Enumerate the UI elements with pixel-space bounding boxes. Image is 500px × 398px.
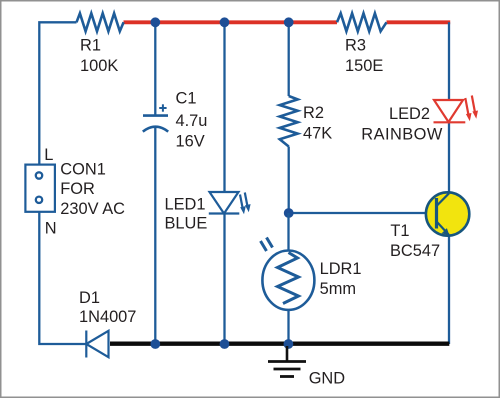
label CON1 FOR 230V AC xyxy=(60,160,125,218)
resistor R3 xyxy=(337,13,387,31)
svg-text:4.7u: 4.7u xyxy=(176,112,208,130)
label D1 1N4007 xyxy=(79,289,136,326)
wire C1 branch xyxy=(154,22,156,344)
node bottom C1 xyxy=(150,339,160,349)
label R2 47K xyxy=(303,104,332,143)
svg-text:100K: 100K xyxy=(80,57,118,75)
svg-text:T1: T1 xyxy=(390,222,409,240)
svg-text:R1: R1 xyxy=(80,37,101,55)
wire top red rail xyxy=(124,20,451,24)
wire base from junction to T1 xyxy=(289,212,436,214)
svg-text:BC547: BC547 xyxy=(390,242,440,260)
wire bottom black rail xyxy=(110,342,449,346)
label LDR1 5mm xyxy=(320,260,362,298)
svg-text:230V AC: 230V AC xyxy=(60,200,125,218)
wire LED1 branch xyxy=(223,22,225,344)
node junction R2/LDR/base xyxy=(284,208,294,218)
svg-text:L: L xyxy=(44,146,53,164)
svg-text:150E: 150E xyxy=(345,57,383,75)
svg-text:LDR1: LDR1 xyxy=(320,260,362,278)
resistor R2 xyxy=(280,96,298,147)
svg-text:5mm: 5mm xyxy=(320,280,356,298)
transistor T1 xyxy=(426,192,469,235)
svg-text:LED1: LED1 xyxy=(165,196,206,214)
svg-text:CON1: CON1 xyxy=(60,160,106,178)
diode D1 xyxy=(86,331,108,358)
node bottom LED1 xyxy=(220,339,230,349)
svg-text:N: N xyxy=(45,219,57,237)
ground xyxy=(268,346,306,377)
label LED2 RAINBOW xyxy=(361,105,443,143)
capacitor C1 xyxy=(143,104,168,131)
LED LED1 xyxy=(209,192,248,214)
LED LED2 xyxy=(434,96,476,123)
wire top-left blue segment xyxy=(39,22,76,164)
svg-text:R2: R2 xyxy=(303,104,324,122)
resistor R1 xyxy=(77,13,124,31)
label C1 4.7u 16V xyxy=(176,90,208,151)
svg-text:D1: D1 xyxy=(79,289,100,307)
svg-text:R3: R3 xyxy=(345,37,366,55)
label R3 150E xyxy=(345,37,383,75)
svg-text:BLUE: BLUE xyxy=(165,215,208,233)
svg-text:FOR: FOR xyxy=(60,180,95,198)
wire R2 branch xyxy=(288,22,290,214)
svg-text:47K: 47K xyxy=(303,125,332,143)
wire LED2/T1 branch xyxy=(448,22,450,344)
label LED1 BLUE xyxy=(165,196,208,233)
node top R2 xyxy=(284,17,294,27)
wire LDR top xyxy=(287,213,289,344)
svg-text:1N4007: 1N4007 xyxy=(79,308,136,326)
svg-text:C1: C1 xyxy=(176,90,197,108)
label R1 100K xyxy=(80,37,118,75)
node bottom GND xyxy=(284,339,294,349)
svg-text:16V: 16V xyxy=(176,133,205,151)
label T1 BC547 xyxy=(390,222,440,260)
connector CON1 xyxy=(25,165,55,212)
LDR LDR1 xyxy=(261,238,315,310)
svg-text:GND: GND xyxy=(309,370,346,388)
node top LED1 xyxy=(220,17,230,27)
svg-text:RAINBOW: RAINBOW xyxy=(361,125,443,143)
node top C1 xyxy=(150,17,160,27)
svg-text:LED2: LED2 xyxy=(389,105,430,123)
wire left lower segment xyxy=(39,212,86,344)
